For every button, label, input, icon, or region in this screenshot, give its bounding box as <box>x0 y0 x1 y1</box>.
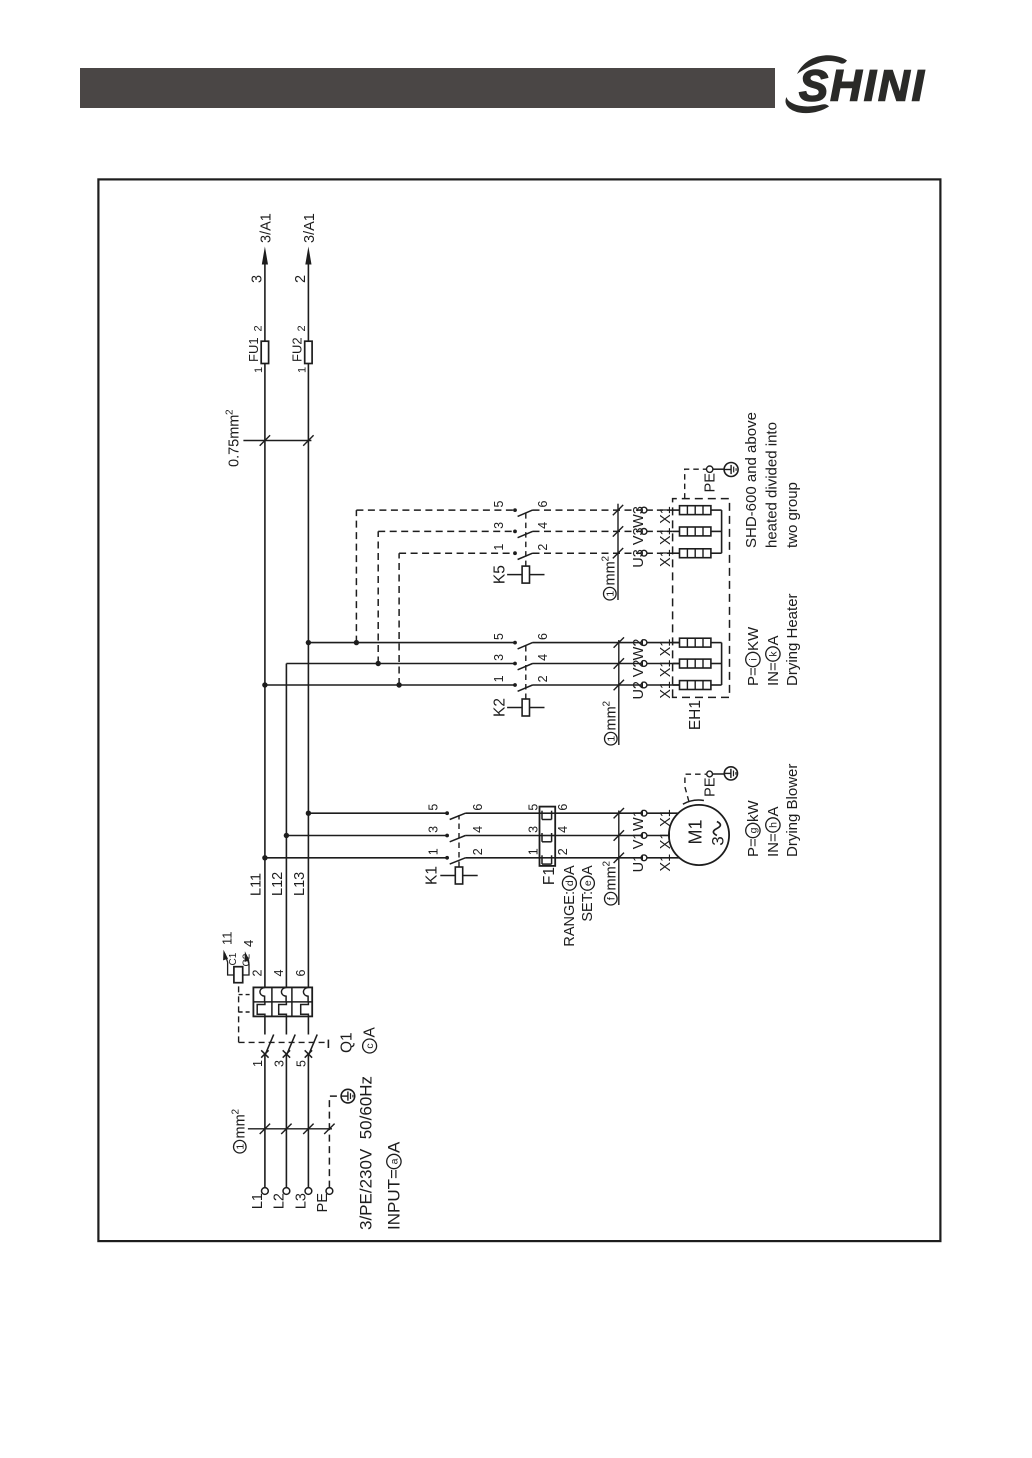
labels K1 pole numbers <box>426 804 485 856</box>
svg-text:0.75mm: 0.75mm <box>226 415 242 467</box>
svg-text:W2: W2 <box>631 639 647 661</box>
wires K2 to heater terminals <box>533 643 642 685</box>
wire size callout (f)mm2 motor branch <box>601 808 624 905</box>
svg-text:PE: PE <box>315 1193 331 1213</box>
wires K5 taps dashed <box>356 510 399 685</box>
heating element EH1 pole 1 <box>673 681 722 690</box>
svg-text:3/A1: 3/A1 <box>258 213 274 243</box>
wires K5 to heater terminals dashed <box>533 510 642 553</box>
heating element group2 pole 3 <box>673 506 722 515</box>
svg-text:X1: X1 <box>658 660 674 678</box>
svg-text:Q1: Q1 <box>338 1032 355 1053</box>
svg-text:mm: mm <box>603 866 619 890</box>
contactor K2 contacts <box>265 641 533 692</box>
wires terminals to heater EH1 <box>647 643 680 685</box>
node L12-K1 tap <box>284 833 289 838</box>
svg-text:L2: L2 <box>272 1193 288 1209</box>
svg-text:kW: kW <box>745 800 762 823</box>
svg-text:2: 2 <box>252 325 264 331</box>
svg-text:5: 5 <box>426 804 440 811</box>
svg-text:SET:: SET: <box>580 891 596 922</box>
svg-text:heated divided into: heated divided into <box>763 422 780 548</box>
heating element group2 pole 2 <box>673 527 722 536</box>
svg-text:1: 1 <box>604 591 616 597</box>
labels 2 4 6 Q1 outputs <box>250 970 308 977</box>
svg-text:5: 5 <box>492 501 506 508</box>
svg-text:EH1: EH1 <box>687 700 704 730</box>
svg-text:W1: W1 <box>631 809 647 831</box>
heater enclosure dashed box <box>673 499 730 698</box>
wires terminals to motor M1 <box>647 813 680 858</box>
svg-text:3/A1: 3/A1 <box>302 213 318 243</box>
svg-text:1: 1 <box>296 367 308 373</box>
svg-text:3: 3 <box>249 275 265 283</box>
contactor K2 coil <box>507 645 544 716</box>
svg-text:mm: mm <box>603 706 619 730</box>
breaker Q1 linkage dashed line and handle <box>239 983 329 1048</box>
svg-text:Drying Heater: Drying Heater <box>784 593 801 686</box>
svg-text:mm: mm <box>602 561 618 585</box>
svg-text:L3: L3 <box>294 1193 310 1209</box>
contactor K5 contacts <box>356 508 532 559</box>
contactor K1 contacts <box>265 811 466 864</box>
wire EH1 star bar <box>721 643 723 685</box>
node K5 tap 2 <box>375 661 380 666</box>
contactor K5 coil <box>507 513 544 583</box>
wire size callout (1)mm2 second heater branch <box>600 504 623 600</box>
wire size callout (1)mm2 heater branch <box>601 637 624 745</box>
svg-text:V2: V2 <box>631 660 647 678</box>
svg-text:A: A <box>361 1027 378 1038</box>
svg-text:k: k <box>768 651 780 657</box>
svg-text:A: A <box>765 635 782 645</box>
svg-text:e: e <box>582 880 594 886</box>
svg-text:1: 1 <box>253 367 265 373</box>
breaker Q1 pole contacts with x-marks <box>261 1016 317 1057</box>
svg-text:X1: X1 <box>658 506 674 524</box>
svg-text:P=: P= <box>745 667 762 686</box>
wire FU1 to sheet 3 arrow <box>249 213 274 341</box>
svg-text:U2: U2 <box>631 681 647 700</box>
label heater ratings P KW IN A Drying Heater <box>745 593 801 686</box>
wire L3 input <box>307 1054 309 1188</box>
svg-text:L11: L11 <box>248 873 264 896</box>
svg-text:h: h <box>768 822 780 828</box>
svg-text:X1: X1 <box>658 549 674 567</box>
earth symbol at input PE <box>341 1089 355 1103</box>
svg-text:K5: K5 <box>491 565 508 584</box>
svg-text:PE: PE <box>702 777 718 797</box>
svg-text:6: 6 <box>536 633 550 640</box>
svg-text:V1: V1 <box>631 832 647 850</box>
svg-text:2: 2 <box>536 675 550 682</box>
svg-text:f: f <box>605 897 617 900</box>
earth symbol at motor PE <box>724 767 737 780</box>
terminal PE <box>315 1188 333 1213</box>
svg-text:SHD-600 and above: SHD-600 and above <box>743 412 760 548</box>
motor M1 drying blower <box>669 805 729 865</box>
svg-text:2: 2 <box>224 409 235 415</box>
svg-text:4: 4 <box>556 826 570 833</box>
label F1 RANGE SET <box>541 865 596 947</box>
svg-text:6: 6 <box>471 804 485 811</box>
svg-text:3: 3 <box>426 826 440 833</box>
svg-text:3: 3 <box>492 522 506 529</box>
svg-text:PE: PE <box>702 473 718 493</box>
heating element group2 pole 1 <box>673 549 722 558</box>
svg-text:A: A <box>580 865 596 875</box>
svg-text:Drying Blower: Drying Blower <box>784 764 801 857</box>
svg-text:2: 2 <box>600 556 611 562</box>
svg-text:L12: L12 <box>270 872 286 896</box>
svg-text:1: 1 <box>492 544 506 551</box>
svg-text:2: 2 <box>230 1109 241 1115</box>
header bar <box>80 68 775 108</box>
svg-text:INPUT=: INPUT= <box>384 1169 403 1230</box>
label motor ratings P kW IN A Drying Blower <box>745 764 801 857</box>
svg-text:5: 5 <box>492 633 506 640</box>
label INPUT=(a)A <box>384 1141 403 1230</box>
node L11-K1 tap <box>262 855 267 860</box>
wire bus L12 <box>285 664 287 988</box>
svg-text:X1: X1 <box>658 681 674 699</box>
thermal relay F1 <box>540 807 556 866</box>
wire PE dashed to earth <box>329 1096 341 1188</box>
svg-text:1: 1 <box>426 848 440 855</box>
svg-text:g: g <box>748 827 760 833</box>
wires K1 to F1 <box>465 813 539 858</box>
svg-text:L13: L13 <box>292 872 308 896</box>
contactor K1 coil <box>440 815 477 884</box>
svg-text:W3: W3 <box>631 506 647 528</box>
fuse FU2 <box>289 325 312 373</box>
svg-text:X1: X1 <box>658 854 674 872</box>
svg-text:U3: U3 <box>631 549 647 568</box>
svg-text:L1: L1 <box>250 1193 266 1209</box>
svg-text:4: 4 <box>471 826 485 833</box>
svg-text:1: 1 <box>527 848 541 855</box>
svg-text:A: A <box>384 1141 403 1153</box>
fuse FU1 <box>246 325 269 373</box>
svg-text:6: 6 <box>536 501 550 508</box>
svg-text:M1: M1 <box>685 819 705 844</box>
svg-text:3: 3 <box>708 836 727 845</box>
wire bus L13 <box>307 364 309 988</box>
svg-text:5: 5 <box>527 804 541 811</box>
svg-text:2: 2 <box>293 275 309 283</box>
schematic frame <box>98 179 940 1241</box>
terminal L1 <box>250 1188 268 1210</box>
wires terminals to second heater dashed <box>647 510 673 553</box>
wire FU2 to sheet 3 arrow <box>293 213 318 341</box>
svg-text:X1: X1 <box>658 527 674 545</box>
node L13-K2 tap <box>306 640 311 645</box>
wire bus L11 <box>264 364 266 988</box>
svg-text:A: A <box>562 865 578 875</box>
svg-text:i: i <box>748 658 760 660</box>
svg-text:4: 4 <box>536 522 550 529</box>
svg-text:2: 2 <box>556 848 570 855</box>
terminal L2 <box>272 1188 290 1210</box>
svg-text:IN=: IN= <box>765 662 782 686</box>
wires F1 to motor terminals <box>555 813 641 858</box>
svg-text:4: 4 <box>272 970 286 977</box>
svg-text:11: 11 <box>219 932 234 946</box>
svg-text:SHINI: SHINI <box>799 63 926 111</box>
earth symbol at heater PE <box>724 463 738 477</box>
svg-text:mm: mm <box>232 1114 248 1138</box>
second heater terminal circles U3 V3 W3 / X1 <box>631 506 674 568</box>
svg-text:RANGE:: RANGE: <box>562 891 578 947</box>
wire L1 input <box>264 1054 266 1188</box>
svg-text:K1: K1 <box>423 866 440 885</box>
breaker Q1 release box <box>253 987 312 1016</box>
terminal L3 <box>294 1188 312 1210</box>
wire L2 input <box>285 1054 287 1188</box>
SHINI logo <box>785 55 926 113</box>
svg-text:4: 4 <box>241 940 256 947</box>
motor M1 PE connection <box>683 771 724 804</box>
motor terminal circles U1 V1 W1 / X1 <box>631 809 674 872</box>
svg-text:4: 4 <box>536 654 550 661</box>
node L13-K1 tap <box>306 811 311 816</box>
labels K5 pole numbers <box>492 501 550 551</box>
label SHD-600 note <box>743 412 801 548</box>
labels K2 pole numbers <box>492 633 550 682</box>
svg-text:FU1: FU1 <box>246 337 261 362</box>
node K5 tap 3 <box>354 640 359 645</box>
breaker Q1 auxiliary contact C1 C2 <box>223 950 253 983</box>
svg-text:2: 2 <box>601 861 612 867</box>
node L11-K2 tap <box>262 682 267 687</box>
svg-text:3: 3 <box>272 1060 286 1067</box>
svg-text:3: 3 <box>492 654 506 661</box>
label Q1 and setting (c)A <box>338 1027 378 1054</box>
heating element EH1 pole 2 <box>673 659 722 668</box>
labels F1 pole numbers <box>527 804 570 856</box>
svg-text:5: 5 <box>294 1060 308 1067</box>
svg-text:1: 1 <box>605 736 617 742</box>
svg-text:2: 2 <box>471 848 485 855</box>
svg-text:F1: F1 <box>541 867 558 885</box>
heater PE connection <box>685 466 725 499</box>
svg-text:6: 6 <box>294 970 308 977</box>
svg-text:2: 2 <box>250 970 264 977</box>
svg-text:A: A <box>765 806 782 816</box>
labels 1 3 5 Q1 inputs <box>251 1060 309 1067</box>
svg-text:C1: C1 <box>228 952 239 965</box>
svg-text:1: 1 <box>251 1060 265 1067</box>
wire size callout (b)mm2 input <box>230 1109 334 1154</box>
svg-text:2: 2 <box>536 544 550 551</box>
svg-text:X1: X1 <box>658 639 674 657</box>
heater terminal circles U2 V2 W2 / X1 <box>631 639 674 700</box>
svg-text:C2: C2 <box>242 953 253 966</box>
wire group2 star bar <box>721 510 723 553</box>
heating element EH1 pole 3 <box>673 638 722 647</box>
svg-text:U1: U1 <box>631 854 647 873</box>
svg-text:2: 2 <box>601 701 612 707</box>
svg-text:V3: V3 <box>631 527 647 545</box>
wire size callout 0.75mm2 <box>224 409 313 467</box>
svg-text:IN=: IN= <box>765 833 782 857</box>
svg-text:d: d <box>564 880 576 886</box>
svg-text:1: 1 <box>492 675 506 682</box>
svg-text:two group: two group <box>784 482 801 548</box>
svg-text:1: 1 <box>234 1144 246 1150</box>
svg-text:a: a <box>389 1158 401 1164</box>
svg-text:c: c <box>364 1043 376 1048</box>
svg-text:2: 2 <box>296 325 308 331</box>
svg-text:3: 3 <box>527 826 541 833</box>
svg-text:FU2: FU2 <box>289 337 304 362</box>
svg-text:K2: K2 <box>491 698 508 717</box>
svg-text:6: 6 <box>556 804 570 811</box>
svg-text:KW: KW <box>745 626 762 651</box>
svg-text:3/PE/230V 50/60Hz: 3/PE/230V 50/60Hz <box>356 1076 375 1230</box>
svg-text:P=: P= <box>745 838 762 857</box>
node K5 tap 1 <box>396 682 401 687</box>
